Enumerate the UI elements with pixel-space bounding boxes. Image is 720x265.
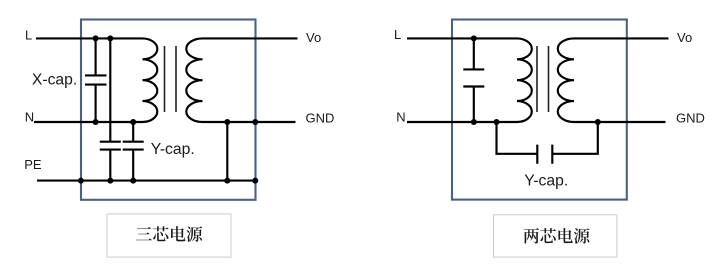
svg-text:L: L [394,27,401,42]
svg-text:X-cap.: X-cap. [32,72,77,89]
svg-text:Vo: Vo [306,30,321,45]
svg-text:Y-cap.: Y-cap. [524,173,568,190]
svg-text:Y-cap.: Y-cap. [151,141,195,158]
svg-text:Vo: Vo [677,30,692,45]
svg-text:N: N [25,110,34,125]
svg-text:L: L [25,28,32,43]
svg-text:GND: GND [676,110,705,125]
svg-text:PE: PE [24,157,42,172]
svg-text:GND: GND [306,110,335,125]
svg-text:N: N [396,110,405,125]
